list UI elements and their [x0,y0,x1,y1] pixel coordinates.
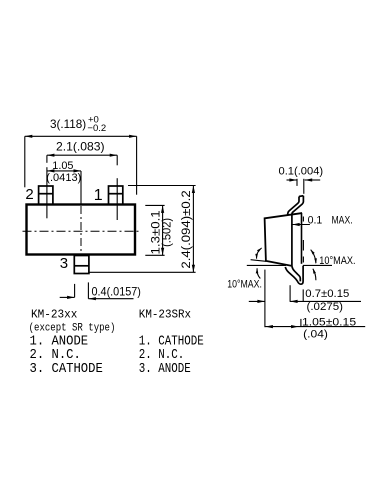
dimension 2.1(.083) line [47,154,117,157]
svg-text:0.4(.0157): 0.4(.0157) [92,285,141,299]
horizontal centerline [23,230,141,232]
svg-text:10°MAX.: 10°MAX. [227,279,262,291]
pin 1 lead [109,186,123,205]
svg-text:(.0413): (.0413) [46,172,81,184]
svg-text:3(.118): 3(.118) [50,117,86,131]
left angle arc lower [256,268,261,279]
svg-text:2.4(.094)±0.2: 2.4(.094)±0.2 [181,190,193,268]
pin 2 centerline extension [46,155,48,163]
0.1 MAX. arrow [292,223,310,226]
dimension 0.4(.0157) lines [60,282,134,300]
svg-text:1.05: 1.05 [52,160,73,172]
svg-text:3. CATHODE: 3. CATHODE [30,361,103,377]
body bottom edge extension [251,260,266,262]
pin 2 lead [39,186,53,205]
pin 3 lead [74,256,89,274]
svg-text:(.04): (.04) [303,329,328,341]
svg-text:(.0275): (.0275) [307,301,344,313]
lead tip reference dashed line [302,217,304,263]
dimension 0.1(.004) arrows [287,178,321,193]
svg-text:1.05±0.15: 1.05±0.15 [302,317,356,329]
dimension 3(.118) text [50,114,106,134]
svg-text:3. ANODE: 3. ANODE [139,361,191,377]
svg-text:(.502): (.502) [161,218,173,247]
svg-text:(except SR type): (except SR type) [29,322,116,334]
left extension line (1.05 dim) [264,270,266,328]
side view lead: hook outer edge + band inner + foot inner edge [292,196,304,282]
lead bend extension line [289,285,291,302]
svg-text:1: 1 [94,187,103,204]
dimension 1.3±0.1 line [145,205,164,255]
svg-text:−0.2: −0.2 [87,123,106,134]
right angle arc upper [310,249,317,264]
side view lead flat band outer line [301,213,303,264]
dimension 0.7±0.15 leader [249,289,361,303]
side view lead hook inner edge [288,197,299,215]
vertical centerline [80,206,82,254]
package centerline extension [80,171,82,205]
svg-text:KM-23xx: KM-23xx [31,307,77,321]
package body (front view) [27,205,136,255]
side view body outline [265,213,303,266]
dimension 1.05 line [47,169,81,172]
svg-text:2.1(.083): 2.1(.083) [56,140,105,154]
dimension 1.05±0.15 leader [265,319,365,328]
seating plane line left [247,264,286,266]
svg-text:3: 3 [60,255,68,272]
side view lead hook cap [299,195,303,198]
svg-text:2: 2 [25,186,33,203]
dimension 2.4(.094)±0.2 line [90,186,196,273]
dimension 3(.118) line [25,135,137,195]
right angle arc lower [313,268,316,280]
svg-text:MAX.: MAX. [332,215,353,227]
seating plane line right [303,264,332,266]
svg-text:0.1(.004): 0.1(.004) [279,165,324,177]
svg-text:0.7±0.15: 0.7±0.15 [305,288,349,300]
svg-text:KM-23SRx: KM-23SRx [139,307,191,321]
side view lead foot outer edge [285,266,303,284]
svg-text:10°MAX.: 10°MAX. [319,255,355,267]
pin 1 centerline extension [116,155,118,165]
left angle arc upper [255,248,262,260]
